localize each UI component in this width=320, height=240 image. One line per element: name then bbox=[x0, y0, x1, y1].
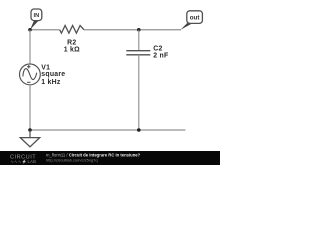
capacitor C2 bbox=[126, 51, 150, 55]
svg-text:IN: IN bbox=[34, 13, 40, 19]
ground bbox=[20, 130, 39, 147]
node junction C2 top bbox=[137, 28, 141, 32]
node junction top-left bbox=[28, 28, 32, 32]
wire V1 bottom bbox=[29, 85, 31, 130]
CircuitLab watermark bar bbox=[0, 151, 220, 165]
svg-text:C2: C2 bbox=[153, 45, 162, 52]
svg-text:R2: R2 bbox=[67, 39, 76, 46]
wire top rail right segment bbox=[84, 29, 181, 31]
resistor R2 bbox=[60, 26, 84, 34]
wire C2 top bbox=[138, 30, 140, 51]
svg-text:1 kΩ: 1 kΩ bbox=[64, 47, 80, 54]
svg-text:square: square bbox=[41, 71, 65, 78]
node junction bottom-left bbox=[28, 128, 32, 132]
wire bottom rail bbox=[30, 129, 185, 131]
voltage source V1 bbox=[20, 64, 41, 85]
wire C2 bottom bbox=[138, 55, 140, 130]
wire top rail left segment bbox=[30, 29, 60, 31]
svg-text:out: out bbox=[190, 14, 200, 21]
terminal out bbox=[181, 11, 203, 30]
node junction C2 bottom bbox=[137, 128, 141, 132]
wire V1 top bbox=[29, 30, 31, 64]
terminal IN bbox=[30, 9, 42, 30]
svg-text:1 kHz: 1 kHz bbox=[41, 79, 61, 86]
svg-text:2 nF: 2 nF bbox=[153, 52, 168, 59]
svg-text:http://circuitlab.com/c/z5vg7q: http://circuitlab.com/c/z5vg7q bbox=[46, 158, 98, 163]
